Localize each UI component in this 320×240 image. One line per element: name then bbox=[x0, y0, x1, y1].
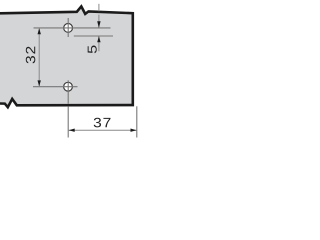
dimension 5 lower shaft bbox=[98, 36, 100, 51]
extension line: hole-2 horizontal centerline bbox=[33, 86, 78, 88]
dimension 5 arrow up bbox=[97, 36, 100, 42]
dimension 32 arrow down bbox=[38, 80, 41, 86]
extension line: 5 dim lower reference bbox=[74, 35, 113, 37]
hole H1 bbox=[64, 24, 73, 33]
dimension 37 arrow left bbox=[69, 129, 75, 132]
centerline: hole-1 vertical bbox=[67, 18, 69, 37]
label 37 bbox=[94, 118, 101, 128]
hole H2 bbox=[64, 82, 73, 91]
extension line: plate right edge down to 37 dim bbox=[136, 106, 138, 137]
dimension 5 upper shaft bbox=[98, 4, 100, 12]
dimension 37 line bbox=[69, 129, 137, 131]
centerline/extension: hole-2 vertical down to 37 dim bbox=[67, 80, 69, 103]
dimension 5 arrow down bbox=[97, 21, 100, 28]
dimension 32 line bbox=[38, 28, 40, 87]
label 5 bbox=[88, 46, 97, 54]
dimension 37 arrow right bbox=[131, 129, 137, 132]
label 32 bbox=[26, 56, 36, 63]
mounting plate outline with break lines bbox=[0, 6, 133, 107]
dimension 32 arrow up bbox=[38, 28, 41, 34]
extension line: hole-1 horizontal centerline / 32+5 datum bbox=[34, 27, 111, 29]
